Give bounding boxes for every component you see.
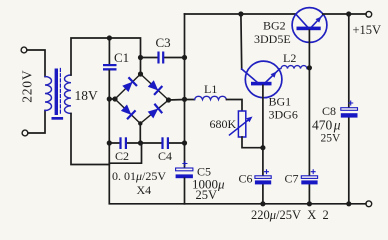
svg-text:C6: C6 — [239, 172, 253, 186]
svg-text:L1: L1 — [204, 82, 217, 96]
capacitor C1 — [103, 64, 117, 66]
inductor L2 — [280, 66, 310, 69]
svg-text:220V: 220V — [20, 70, 35, 103]
svg-text:C7: C7 — [285, 172, 299, 186]
svg-text:C1: C1 — [114, 50, 129, 65]
svg-text:C3: C3 — [156, 35, 171, 50]
node bridge right vertex — [166, 97, 171, 102]
wire C3 row — [141, 57, 185, 59]
transformer core — [55, 69, 58, 116]
wire stub to left vertex — [109, 98, 115, 100]
transformer shield dashed — [59, 69, 61, 115]
node left vertex — [112, 96, 117, 101]
capacitor C7 — [311, 170, 315, 174]
wire C7 leads — [308, 68, 310, 204]
node C2 left — [107, 140, 112, 145]
node C1 top — [107, 35, 112, 40]
svg-text:3DG6: 3DG6 — [269, 108, 298, 122]
svg-text:+15V: +15V — [353, 23, 382, 37]
node bridge top vertex — [138, 71, 143, 76]
wire C6 top lead — [262, 148, 264, 204]
capacitor C8 — [349, 101, 353, 105]
wire — [28, 111, 45, 134]
diode D4 lower-right — [148, 109, 159, 119]
capacitor C3 — [157, 52, 159, 64]
svg-text:220μ/25V X 2: 220μ/25V X 2 — [251, 208, 329, 222]
svg-text:3DD5E: 3DD5E — [254, 32, 291, 46]
wire AC2 return to bridge bottom — [109, 143, 141, 163]
transistor BG1 3DG6 — [245, 61, 282, 98]
terminal +15V — [366, 11, 372, 17]
wire minus rail: C1 bottom down to ground rail — [109, 71, 366, 204]
diode D1 upper-left — [122, 82, 132, 92]
wire C2 C4 row — [109, 142, 184, 144]
terminal AC input top — [21, 47, 27, 53]
node ground C8 — [346, 201, 351, 206]
wire rail down to BG1 collector — [240, 14, 243, 69]
top rail left segment — [185, 13, 297, 15]
svg-text:X4: X4 — [137, 183, 152, 197]
transformer shield plate — [52, 117, 64, 120]
transformer T secondary winding — [65, 75, 71, 113]
svg-text:680K: 680K — [210, 117, 237, 131]
node L2 / BG2 base / C7 — [307, 65, 312, 70]
wire BG2 base down — [308, 30, 310, 68]
node ground C6 — [260, 201, 265, 206]
node bridge bottom vertex — [138, 121, 142, 125]
top rail right segment — [323, 13, 366, 15]
node C3 right — [182, 55, 187, 60]
node BG1 base / C6 — [260, 145, 265, 150]
transistor BG2 3DD5E — [292, 8, 327, 43]
inductor L1 — [195, 96, 227, 99]
node C2/C4 mid — [138, 140, 143, 145]
node C3 left — [138, 55, 143, 60]
capacitor C2 — [119, 137, 121, 149]
svg-text:25V: 25V — [321, 133, 342, 145]
diode D2 upper-right — [148, 80, 158, 90]
svg-text:C2: C2 — [115, 149, 129, 163]
bridge edge lower-right — [140, 100, 168, 124]
resistor 680K adjustable — [238, 111, 245, 137]
svg-text:470μ: 470μ — [312, 118, 341, 133]
svg-text:C4: C4 — [158, 149, 172, 163]
svg-text:0. 01μ/25V: 0. 01μ/25V — [112, 169, 166, 183]
svg-text:C8: C8 — [322, 104, 336, 118]
diode D3 lower-left — [121, 105, 131, 115]
wire L1 to pot — [227, 100, 243, 112]
wire secondary top to bridge top — [71, 38, 141, 75]
node rail to BG1 collector — [238, 11, 243, 16]
svg-text:BG2: BG2 — [263, 19, 286, 33]
terminal AC input bottom — [22, 130, 28, 136]
wire C8 branch — [348, 14, 350, 204]
node C4 right — [182, 140, 187, 145]
node L1 tap — [182, 97, 187, 102]
wire bottom vertex down — [139, 124, 141, 144]
transformer T primary winding — [45, 77, 52, 111]
capacitor C5 — [183, 162, 187, 166]
wire C1 branch upper — [108, 38, 110, 65]
wire DC+ vertical x=184.5 — [184, 14, 186, 168]
svg-text:BG1: BG1 — [269, 95, 292, 109]
wire C5 bottom — [184, 178, 186, 204]
node ground C7 — [307, 201, 312, 206]
bridge edge lower-left — [115, 99, 140, 124]
wire right vertex to L1 — [169, 99, 195, 102]
wire — [27, 50, 45, 77]
capacitor C4 — [161, 137, 163, 149]
bridge edge upper-right — [141, 74, 169, 100]
capacitor C6 — [265, 170, 269, 174]
bridge edge upper-left — [115, 74, 141, 99]
svg-text:25V: 25V — [196, 188, 218, 202]
wire pot bottom to BG1 base node — [242, 137, 263, 148]
node bridge left stub — [107, 96, 112, 101]
node C8 top — [346, 11, 351, 16]
svg-text:18V: 18V — [75, 88, 99, 103]
terminal output minus — [366, 201, 372, 207]
svg-text:L2: L2 — [283, 51, 296, 65]
wire BG1 base down — [262, 85, 264, 147]
wire secondary bottom — [71, 114, 109, 165]
